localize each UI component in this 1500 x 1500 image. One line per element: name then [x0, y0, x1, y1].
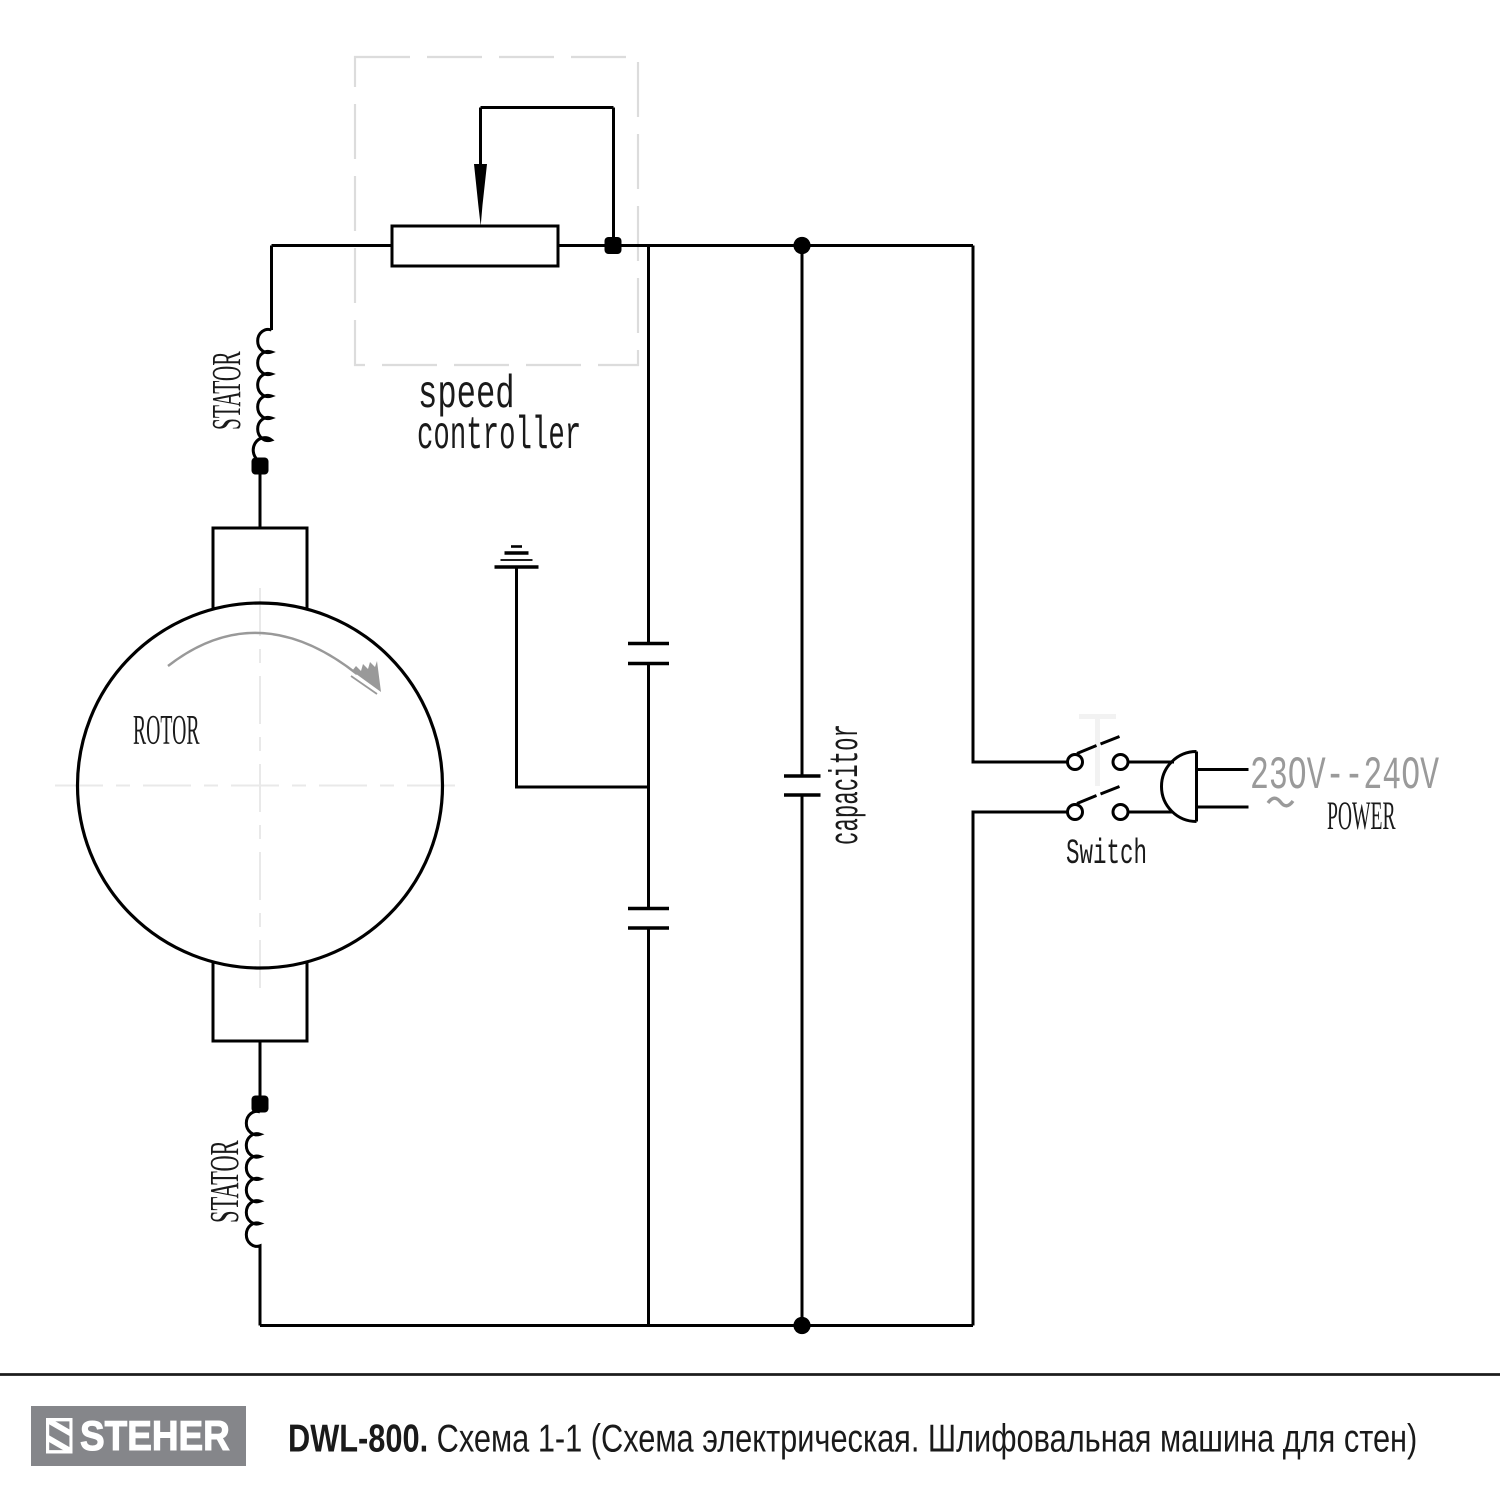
speed controller dashed enclosure — [355, 57, 638, 365]
wire: middle branch upper — [647, 246, 650, 643]
capacitor C2 — [628, 907, 669, 910]
rotor rotation arrow — [168, 633, 357, 674]
switch actuator faint T — [1079, 714, 1116, 786]
wire: right feed top — [973, 246, 1067, 763]
svg-text:controller: controller — [417, 410, 581, 462]
inductor STATOR bottom coil — [246, 1111, 260, 1325]
plug pin bottom — [1198, 806, 1249, 809]
wire: capacitor branch upper — [801, 246, 804, 776]
svg-text:STEHER: STEHER — [80, 1413, 230, 1460]
potentiometer resistor body — [392, 226, 558, 266]
STEHER logo plate — [31, 1406, 246, 1466]
wire: right feed bottom — [973, 812, 1067, 1326]
node: capacitor branch bottom junction — [793, 1317, 810, 1334]
wire: bottom bus — [260, 1324, 973, 1327]
switch pole 2 blade — [1077, 787, 1120, 804]
potentiometer wiper wire and loop — [481, 108, 614, 241]
wire: switch to plug top — [1128, 761, 1174, 764]
STEHER logo mark — [16, 1390, 104, 1482]
wire: junction to top brush — [259, 466, 262, 528]
svg-text:Switch: Switch — [1066, 833, 1147, 874]
svg-text:DWL-800. Схема 1-1 (Схема элек: DWL-800. Схема 1-1 (Схема электрическая.… — [288, 1417, 1417, 1460]
footer separator line — [0, 1373, 1500, 1376]
svg-text:POWER: POWER — [1327, 793, 1396, 837]
svg-text:capacitor: capacitor — [824, 724, 870, 845]
node: brush-stator junction bottom — [252, 1096, 269, 1113]
capacitor C1 — [628, 642, 669, 645]
wire: switch to plug bottom — [1128, 811, 1173, 814]
wire: ground stem — [517, 568, 649, 787]
node: stator-brush junction top — [252, 458, 269, 475]
AC tilde — [1268, 798, 1293, 806]
node: wiper-bus junction — [605, 237, 622, 254]
potentiometer wiper arrow — [474, 164, 487, 226]
node: capacitor branch top junction — [793, 237, 810, 254]
wire: stator-top drop — [270, 246, 273, 331]
brush bottom (3-sided box) — [213, 962, 307, 1042]
ground symbol — [495, 565, 539, 568]
switch pole 1 contacts — [1068, 755, 1083, 770]
wire: top bus — [272, 244, 974, 247]
rotor crosshair horizontal centerline — [55, 785, 465, 787]
capacitor C3 — [784, 774, 821, 777]
wire: bottom brush to junction — [259, 1041, 262, 1104]
switch pole 1 blade — [1077, 737, 1120, 754]
svg-text:STATOR: STATOR — [203, 1140, 248, 1223]
plug body — [1162, 752, 1197, 822]
svg-text:ROTOR: ROTOR — [133, 708, 200, 754]
rotor circle — [78, 603, 443, 968]
plug pin top — [1198, 768, 1249, 771]
inductor STATOR top coil — [253, 329, 271, 466]
wire: middle branch lower — [647, 928, 650, 1326]
rotor crosshair vertical centerline — [259, 588, 261, 990]
switch pole 2 contacts — [1068, 805, 1083, 820]
brush top (3-sided box) — [213, 528, 307, 609]
svg-text:STATOR: STATOR — [205, 351, 250, 430]
wire: capacitor branch lower — [801, 795, 804, 1326]
wire: middle branch between caps — [647, 664, 650, 908]
